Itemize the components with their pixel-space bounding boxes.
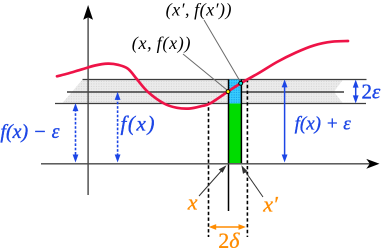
svg-text:f(x) − ε: f(x) − ε <box>0 121 59 143</box>
x-axis arrowhead <box>366 159 379 169</box>
arrow f(x) (dashed stem, double head) <box>115 92 121 163</box>
leader line to (x',f(x')) <box>204 20 241 82</box>
band top line f(x)+eps <box>83 79 367 81</box>
x-axis <box>41 163 370 165</box>
y-axis arrowhead <box>83 5 93 20</box>
svg-text:2ε: 2ε <box>362 79 381 103</box>
arrow f(x)+eps (solid stem, double head) <box>282 79 288 162</box>
vertical solid line at x' <box>240 80 242 164</box>
dashed line x-delta <box>208 102 210 238</box>
leader arrow to x' on axis <box>241 165 263 197</box>
green strip (below band to axis) <box>229 104 242 164</box>
2delta arrow (orange double head) <box>209 224 246 230</box>
dashed line x+delta <box>246 79 248 237</box>
svg-text:x′: x′ <box>262 192 279 217</box>
band bottom line f(x)-eps <box>55 103 366 105</box>
svg-text:f(x) + ε: f(x) + ε <box>295 113 352 134</box>
svg-text:(x, f(x)): (x, f(x)) <box>132 33 191 54</box>
y-axis <box>87 12 89 195</box>
arrow f(x)-eps (dashed stem, double head) <box>73 103 79 162</box>
cyan strip (band between x and x') <box>229 80 242 104</box>
epsilon band fill <box>62 80 343 104</box>
svg-text:(x′, f(x′)): (x′, f(x′)) <box>166 0 232 21</box>
svg-text:2δ: 2δ <box>218 228 240 248</box>
point (x,f(x)) yellow dot <box>226 90 230 94</box>
arrow 2eps (solid, double head) <box>353 80 359 104</box>
red curve <box>57 41 348 109</box>
leader line to (x,f(x)) <box>183 54 227 90</box>
band middle line f(x) <box>67 91 344 93</box>
vertical solid line at x <box>228 80 230 212</box>
point (x',f(x')) cyan dot <box>239 81 243 85</box>
leader arrow to x on axis <box>199 165 227 196</box>
svg-text:x: x <box>187 190 198 215</box>
svg-text:f(x): f(x) <box>121 112 157 136</box>
